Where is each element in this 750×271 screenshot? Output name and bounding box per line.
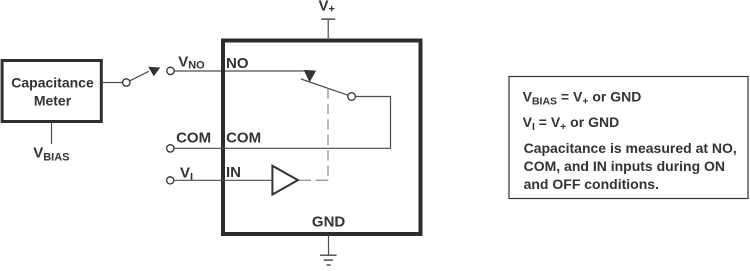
switch wiper arrowhead — [148, 67, 160, 76]
V+ supply stem wire — [327, 19, 329, 40]
wire from meter to switch pole — [102, 82, 122, 84]
svg-text:Meter: Meter — [34, 93, 72, 109]
IN wire — [174, 179, 272, 181]
wire from internal contact to right — [356, 97, 391, 149]
svg-text:COM, and IN inputs during ON: COM, and IN inputs during ON — [524, 158, 725, 174]
dashed control wire vertical — [327, 89, 329, 178]
V+ supply terminal bar — [321, 18, 335, 20]
svg-text:V+: V+ — [319, 0, 335, 16]
svg-text:and OFF conditions.: and OFF conditions. — [524, 176, 659, 192]
ground symbol — [320, 254, 337, 256]
internal switch wiper wire — [301, 79, 348, 95]
buffer driver triangle — [272, 166, 298, 195]
switch wiper wire — [130, 71, 149, 81]
svg-text:COM: COM — [226, 130, 261, 147]
node V_NO contact circle — [167, 67, 174, 74]
COM wire — [174, 147, 391, 149]
svg-text:Capacitance: Capacitance — [11, 75, 94, 91]
IC box — [223, 41, 421, 235]
internal switch contact circle — [348, 93, 356, 101]
svg-text:VNO: VNO — [178, 54, 205, 72]
COM contact circle — [167, 145, 174, 152]
notes box — [509, 77, 748, 199]
internal switch arrowhead — [304, 70, 317, 82]
dashed control wire horizontal — [300, 179, 329, 181]
ground stem wire — [328, 235, 330, 255]
svg-text:NO: NO — [226, 55, 249, 72]
svg-text:COM: COM — [176, 130, 211, 147]
svg-text:GND: GND — [312, 214, 346, 231]
svg-text:VBIAS: VBIAS — [33, 145, 69, 164]
svg-text:Capacitance is measured at NO,: Capacitance is measured at NO, — [524, 140, 737, 156]
wire V_BIAS stub — [51, 123, 53, 145]
svg-text:IN: IN — [226, 164, 241, 181]
switch pole contact circle — [123, 79, 130, 86]
wire V_NO to NO pin — [174, 70, 303, 72]
V_I contact circle — [167, 177, 174, 184]
capacitance meter box — [2, 61, 101, 122]
